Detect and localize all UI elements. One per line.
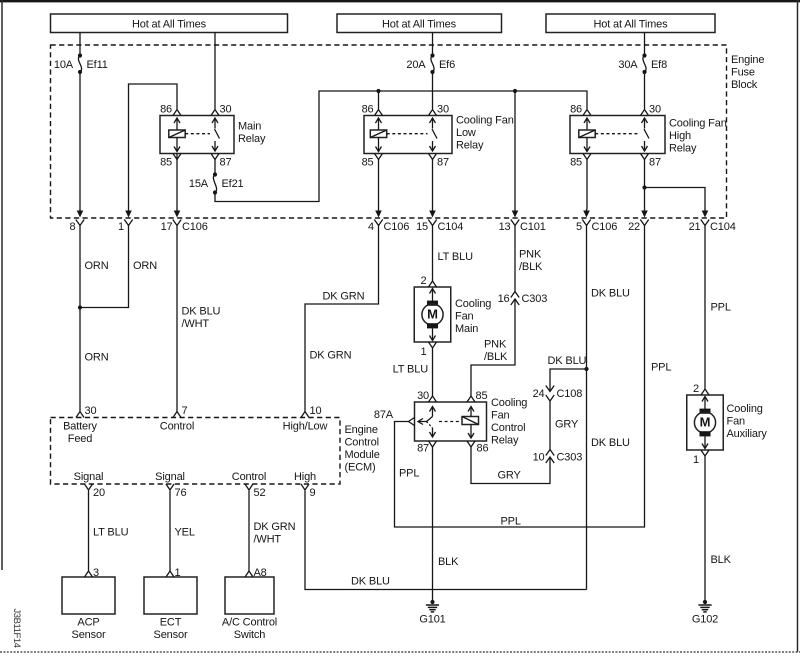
- svg-text:87: 87: [417, 443, 429, 455]
- svg-text:M: M: [427, 307, 438, 322]
- relay K1: Main Relay: [160, 104, 266, 169]
- svg-text:ORN: ORN: [85, 260, 109, 272]
- ground G102: [692, 600, 718, 626]
- svg-text:J3B11F14: J3B11F14: [11, 609, 22, 648]
- svg-text:87: 87: [437, 157, 449, 169]
- svg-text:DK GRN: DK GRN: [323, 291, 365, 303]
- junction: feed line to connector pin 13: [513, 89, 517, 93]
- svg-text:Fuse: Fuse: [731, 67, 755, 79]
- svg-text:C108: C108: [557, 388, 583, 400]
- svg-text:Battery: Battery: [63, 421, 97, 433]
- junction: DK BLU branch to C108: [584, 367, 588, 371]
- junction: feed line to Low Relay 86: [376, 89, 380, 93]
- svg-text:15A: 15A: [189, 178, 209, 190]
- svg-text:C106: C106: [384, 221, 410, 233]
- label PPL (pin 22): [651, 362, 671, 374]
- svg-text:30: 30: [437, 104, 449, 116]
- connector pin 13 C101: [499, 209, 546, 233]
- svg-text:PNK: PNK: [484, 339, 507, 351]
- svg-text:Ef11: Ef11: [87, 59, 108, 71]
- label LT BLU (ACP): [93, 527, 129, 539]
- svg-text:A/C Control: A/C Control: [222, 617, 277, 629]
- label LT BLU (lower): [393, 364, 429, 376]
- label PPL (pin 21): [711, 302, 731, 314]
- fuse Ef21 15A: [189, 172, 244, 194]
- svg-text:20: 20: [93, 487, 105, 499]
- svg-text:M: M: [700, 415, 711, 430]
- svg-text:87A: 87A: [374, 409, 394, 421]
- svg-text:ORN: ORN: [85, 352, 109, 364]
- ECM top pin 10: [301, 405, 321, 418]
- svg-text:16: 16: [498, 293, 510, 305]
- wire ORN: pin 8 to ECM pin 30: [79, 226, 81, 412]
- svg-text:Engine: Engine: [731, 54, 764, 66]
- connector pin 15 C104: [416, 209, 463, 233]
- svg-text:A8: A8: [254, 567, 267, 579]
- svg-text:10: 10: [533, 452, 545, 464]
- fuse Ef11 10A: [54, 53, 108, 74]
- junction: High Relay 87 branch: [642, 185, 646, 189]
- svg-text:PPL: PPL: [399, 468, 419, 480]
- power feed box 2: Hot at All Times: [337, 14, 502, 33]
- label Signal (ECM pin 20): [74, 471, 104, 483]
- wire: fuse Ef6 to Low Relay pin 30: [432, 72, 434, 109]
- svg-text:C106: C106: [182, 221, 208, 233]
- svg-text:C104: C104: [710, 221, 736, 233]
- svg-text:Relay: Relay: [238, 133, 266, 145]
- svg-text:DK BLU: DK BLU: [591, 437, 630, 449]
- svg-text:10A: 10A: [54, 59, 74, 71]
- wire DK GRN: pin 4 to ECM pin 10: [305, 226, 379, 412]
- svg-text:85: 85: [570, 157, 582, 169]
- wire GRY: C108 to C303 pin 10: [549, 401, 551, 450]
- ECM top pin 30: [76, 405, 96, 418]
- connector pin 17 C106: [161, 209, 208, 233]
- svg-text:ACP: ACP: [77, 617, 99, 629]
- svg-text:Fan: Fan: [727, 416, 746, 428]
- ECM bottom pin 76: [166, 484, 186, 499]
- svg-text:Module: Module: [345, 449, 380, 461]
- svg-text:/BLK: /BLK: [484, 351, 508, 363]
- svg-text:21: 21: [689, 221, 701, 233]
- wire DK BLU: pin 5 down to DK BLU run: [586, 226, 588, 590]
- svg-text:YEL: YEL: [175, 527, 195, 539]
- label ORN (pin 1 wire): [133, 260, 157, 272]
- svg-text:(ECM): (ECM): [345, 462, 376, 474]
- power feed box 1: Hot at All Times: [51, 14, 288, 33]
- label Signal (ECM pin 76): [155, 471, 185, 483]
- wire PNK/BLK: pin 13 to connector C303 pin 16: [514, 226, 516, 292]
- svg-text:BLK: BLK: [711, 554, 732, 566]
- label ORN (pin 8 wire): [85, 260, 109, 272]
- label DK GRN (upper): [323, 291, 365, 303]
- relay K2: Cooling Fan Low Relay: [362, 104, 514, 169]
- connector pin 1: [118, 209, 133, 233]
- svg-text:High: High: [669, 130, 691, 142]
- svg-text:85: 85: [476, 390, 488, 402]
- svg-text:Relay: Relay: [669, 143, 697, 155]
- wire DK BLU: ECM pin 9 to pin 5 run: [305, 491, 587, 590]
- label GRY (upper): [555, 419, 579, 431]
- svg-text:Low: Low: [456, 127, 476, 139]
- wire: High Relay pin 85 to connector pin 5: [586, 160, 588, 210]
- svg-text:DK BLU: DK BLU: [548, 355, 587, 367]
- label High/Low: [283, 421, 328, 433]
- svg-text:1: 1: [421, 346, 427, 358]
- svg-text:Control: Control: [491, 422, 525, 434]
- fuse Ef6 20A: [406, 53, 455, 74]
- wire: Main Relay pin 85 to connector pin 17: [176, 154, 178, 210]
- label LT BLU (upper): [438, 251, 474, 263]
- wire GRY: C303 to Control Relay pin 86: [471, 447, 550, 484]
- label DK BLU/WHT: [182, 306, 221, 331]
- ECM bottom pin 52: [245, 484, 265, 499]
- wire ORN: pin 1 joins: [80, 226, 129, 308]
- wire: feed line down to Low Relay pin 86: [378, 91, 380, 109]
- svg-text:Ef6: Ef6: [439, 59, 455, 71]
- fuse Ef8 30A: [618, 53, 667, 74]
- svg-text:22: 22: [628, 221, 640, 233]
- wire: Low Relay pin 85 to connector pin 4: [378, 160, 380, 210]
- relay K4: Cooling Fan Control Relay: [374, 390, 527, 455]
- wire: hot box 3 to fuse Ef8: [644, 33, 646, 56]
- wire PPL: pin 21 to Cooling Fan Auxiliary: [704, 226, 706, 390]
- label Control: [160, 421, 194, 433]
- label ORN (to battery feed): [85, 352, 109, 364]
- svg-text:Cooling Fan: Cooling Fan: [669, 118, 727, 130]
- svg-text:C101: C101: [520, 221, 546, 233]
- svg-text:PPL: PPL: [651, 362, 671, 374]
- svg-text:C303: C303: [557, 452, 583, 464]
- svg-text:Engine: Engine: [345, 424, 378, 436]
- wire DK GRN/WHT: ECM pin 52 to A/C Control Switch: [248, 491, 250, 572]
- wire BLK: aux motor to ground G102: [704, 456, 706, 602]
- svg-text:ORN: ORN: [133, 260, 157, 272]
- svg-text:High/Low: High/Low: [283, 421, 328, 433]
- ECM bottom pin 20: [85, 484, 105, 499]
- svg-text:52: 52: [254, 487, 266, 499]
- label DK GRN/WHT: [254, 521, 296, 546]
- Engine Fuse Block (dashed): [51, 45, 765, 218]
- svg-text:17: 17: [161, 221, 173, 233]
- label Battery Feed: [63, 421, 97, 446]
- svg-text:Hot at All Times: Hot at All Times: [132, 19, 207, 31]
- wire PPL: pin 22 to Control Relay pin 87A: [395, 226, 645, 528]
- svg-text:G102: G102: [692, 614, 718, 626]
- svg-text:5: 5: [576, 221, 582, 233]
- svg-text:Switch: Switch: [234, 629, 266, 641]
- label PPL (riser): [399, 468, 419, 480]
- svg-text:1: 1: [175, 567, 181, 579]
- label BLK (aux): [711, 554, 732, 566]
- svg-text:87: 87: [649, 157, 661, 169]
- svg-text:76: 76: [175, 487, 187, 499]
- wire PNK/BLK: C303 to Control Relay pin 85: [471, 300, 515, 397]
- svg-text:24: 24: [533, 388, 545, 400]
- label DK GRN (lower): [310, 350, 352, 362]
- svg-text:C104: C104: [438, 221, 464, 233]
- motor M1: Cooling Fan Main: [414, 275, 491, 358]
- svg-text:86: 86: [477, 443, 489, 455]
- svg-text:C303: C303: [522, 293, 548, 305]
- svg-text:Cooling: Cooling: [455, 298, 491, 310]
- svg-text:86: 86: [570, 104, 582, 116]
- svg-text:Sensor: Sensor: [72, 629, 106, 641]
- label High (ECM pin 9): [294, 471, 316, 483]
- Engine Control Module (ECM) dashed box: [51, 418, 380, 485]
- svg-text:15: 15: [416, 221, 428, 233]
- svg-text:Hot at All Times: Hot at All Times: [382, 19, 457, 31]
- svg-text:Main: Main: [455, 323, 478, 335]
- svg-text:/WHT: /WHT: [254, 534, 282, 546]
- frame top border: [0, 0, 800, 2]
- svg-text:DK BLU: DK BLU: [351, 576, 390, 588]
- in-line connector pin 10 C303: [533, 450, 583, 464]
- svg-text:30A: 30A: [618, 59, 638, 71]
- wire BLK: Control Relay pin 87 to ground G101: [432, 447, 434, 602]
- label DK BLU (pin 5): [591, 288, 630, 300]
- wire LT BLU: pin 15 to Cooling Fan Main: [432, 226, 434, 282]
- wire: Low Relay pin 87 to connector pin 15: [432, 160, 434, 210]
- svg-text:30: 30: [220, 104, 232, 116]
- svg-text:30: 30: [417, 390, 429, 402]
- svg-text:DK BLU: DK BLU: [182, 306, 221, 318]
- wire LT BLU: ECM pin 20 to ACP Sensor: [88, 491, 90, 572]
- wire: hot box 1 to fuse Ef11: [79, 33, 81, 56]
- label PPL (horizontal): [501, 516, 521, 528]
- svg-text:20A: 20A: [406, 59, 426, 71]
- svg-text:3: 3: [93, 567, 99, 579]
- svg-text:Cooling: Cooling: [727, 403, 763, 415]
- svg-text:30: 30: [649, 104, 661, 116]
- label PNK/BLK (upper): [519, 249, 543, 274]
- label GRY (lower): [498, 470, 522, 482]
- svg-text:DK GRN: DK GRN: [254, 521, 296, 533]
- svg-text:LT BLU: LT BLU: [438, 251, 474, 263]
- svg-text:Sensor: Sensor: [154, 629, 188, 641]
- svg-text:10: 10: [310, 405, 322, 417]
- svg-text:13: 13: [499, 221, 511, 233]
- wire YEL: ECM pin 76 to ECT Sensor: [169, 491, 171, 572]
- svg-text:Hot at All Times: Hot at All Times: [593, 19, 668, 31]
- wire: feed line down to connector pin 13: [514, 91, 516, 210]
- svg-text:DK BLU: DK BLU: [591, 288, 630, 300]
- svg-text:GRY: GRY: [555, 419, 579, 431]
- ECM bottom pin 9: [301, 484, 316, 499]
- label DK BLU (mid): [591, 437, 630, 449]
- svg-text:Auxiliary: Auxiliary: [727, 428, 768, 440]
- svg-text:High: High: [294, 471, 316, 483]
- motor M2: Cooling Fan Auxiliary: [687, 383, 768, 466]
- svg-text:Cooling: Cooling: [491, 397, 527, 409]
- wire LT BLU: motor pin 1 to Control Relay pin 30: [432, 348, 434, 396]
- component: A/C Control Switch: [222, 567, 277, 641]
- label YEL: [175, 527, 195, 539]
- svg-text:Feed: Feed: [68, 433, 93, 445]
- svg-text:LT BLU: LT BLU: [93, 527, 129, 539]
- svg-text:G101: G101: [419, 614, 445, 626]
- wire: Main Relay pin 87 to fuse Ef21: [214, 160, 216, 175]
- wire DK BLU: branch to connector C108 pin 24: [550, 369, 587, 391]
- svg-text:8: 8: [70, 221, 76, 233]
- label DK BLU (bottom): [351, 576, 390, 588]
- label Control (ECM pin 52): [232, 471, 266, 483]
- svg-text:2: 2: [421, 275, 427, 287]
- wire: hot box 1 to Main Relay pin 30: [214, 33, 216, 110]
- component: ECT Sensor: [144, 567, 197, 641]
- junction: ORN wires: [78, 305, 82, 309]
- svg-text:Ef8: Ef8: [651, 59, 667, 71]
- svg-text:85: 85: [160, 157, 172, 169]
- wire: fuse Ef21 output feed line to relay 86 pins: [215, 91, 587, 202]
- wire DK BLU/WHT: pin 17 to ECM pin 7: [176, 226, 178, 412]
- connector pin 22: [628, 209, 649, 233]
- wire: Main Relay pin 86 up-over-down to connector pin 1: [129, 84, 178, 210]
- ECM top pin 7: [173, 405, 188, 418]
- svg-text:9: 9: [310, 487, 316, 499]
- wire: hot box 2 to fuse Ef6: [432, 33, 434, 56]
- power feed box 3: Hot at All Times: [546, 14, 715, 33]
- in-line connector pin 24 C108: [533, 386, 583, 402]
- svg-text:PNK: PNK: [519, 249, 542, 261]
- svg-text:PPL: PPL: [711, 302, 731, 314]
- ground G101: [419, 600, 445, 626]
- svg-text:30: 30: [85, 405, 97, 417]
- wire: branch to connector pin 21: [645, 188, 706, 210]
- svg-text:4: 4: [368, 221, 374, 233]
- connector pin 21 C104: [689, 209, 736, 233]
- svg-text:7: 7: [182, 405, 188, 417]
- svg-text:Signal: Signal: [155, 471, 185, 483]
- connector pin 5 C106: [576, 209, 617, 233]
- svg-text:85: 85: [362, 157, 374, 169]
- svg-text:/BLK: /BLK: [519, 261, 543, 273]
- svg-text:/WHT: /WHT: [182, 318, 210, 330]
- connector pin 8: [70, 209, 85, 233]
- wire: fuse Ef8 to High Relay pin 30: [644, 72, 646, 109]
- svg-text:Control: Control: [160, 421, 194, 433]
- svg-text:Cooling Fan: Cooling Fan: [456, 115, 514, 127]
- svg-text:PPL: PPL: [501, 516, 521, 528]
- svg-text:Control: Control: [345, 437, 379, 449]
- component: ACP Sensor: [62, 567, 115, 641]
- wire: fuse Ef11 to connector pin 8: [79, 72, 81, 210]
- svg-text:87: 87: [220, 157, 232, 169]
- svg-text:ECT: ECT: [160, 617, 182, 629]
- svg-text:Block: Block: [731, 79, 758, 91]
- svg-text:Control: Control: [232, 471, 266, 483]
- connector pin 4 C106: [368, 209, 409, 233]
- svg-text:Relay: Relay: [491, 435, 519, 447]
- svg-text:1: 1: [693, 454, 699, 466]
- svg-text:86: 86: [362, 104, 374, 116]
- label BLK (relay): [438, 556, 459, 568]
- label DK BLU (branch): [548, 355, 587, 367]
- svg-text:BLK: BLK: [438, 556, 459, 568]
- frame right border: [797, 0, 799, 652]
- wire: High Relay pin 87 to connector pin 22: [644, 160, 646, 210]
- svg-text:Main: Main: [238, 121, 261, 133]
- svg-text:Signal: Signal: [74, 471, 104, 483]
- svg-text:Relay: Relay: [456, 140, 484, 152]
- label PNK/BLK (lower): [484, 339, 508, 364]
- relay K3: Cooling Fan High Relay: [570, 104, 727, 169]
- svg-text:GRY: GRY: [498, 470, 522, 482]
- svg-text:Fan: Fan: [455, 311, 474, 323]
- svg-text:DK GRN: DK GRN: [310, 350, 352, 362]
- svg-text:2: 2: [693, 383, 699, 395]
- in-line connector pin 16 C303: [498, 292, 548, 306]
- svg-text:1: 1: [118, 221, 124, 233]
- svg-text:LT BLU: LT BLU: [393, 364, 429, 376]
- frame left border: [1, 0, 3, 570]
- svg-text:Ef21: Ef21: [222, 178, 244, 190]
- frame bottom dotted border: [0, 651, 800, 653]
- svg-text:86: 86: [160, 104, 172, 116]
- svg-text:Fan: Fan: [491, 410, 510, 422]
- svg-text:C106: C106: [592, 221, 618, 233]
